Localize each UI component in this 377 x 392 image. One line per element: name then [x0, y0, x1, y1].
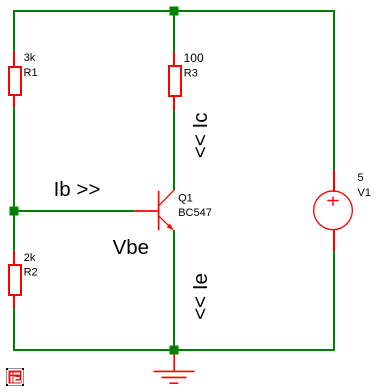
wire middle vertical top: [173, 10, 175, 52]
svg-text:BC547: BC547: [178, 207, 212, 219]
wire collector: [173, 110, 175, 190]
svg-text:<< Ic: << Ic: [189, 113, 212, 159]
resistor R1: [9, 51, 21, 107]
node junction bottom: [170, 346, 179, 355]
wire left vertical middle: [13, 107, 15, 251]
svg-text:Vbe: Vbe: [113, 236, 149, 259]
svg-text:R1: R1: [24, 67, 38, 79]
svg-text:5: 5: [358, 172, 364, 184]
wire right vertical upper: [333, 10, 335, 170]
svg-text:<< Ie: << Ie: [189, 273, 212, 320]
svg-text:2k: 2k: [24, 252, 36, 264]
wire bottom horizontal: [13, 349, 335, 351]
node junction top: [170, 7, 179, 16]
svg-text:3k: 3k: [24, 52, 36, 64]
resistor R3: [169, 52, 181, 110]
svg-text:V1: V1: [358, 187, 371, 199]
wire emitter: [173, 230, 175, 351]
svg-text:Ib >>: Ib >>: [54, 178, 101, 201]
svg-text:100: 100: [184, 51, 204, 65]
svg-text:R2: R2: [24, 267, 38, 279]
svg-text:Q1: Q1: [178, 192, 193, 204]
transistor Q1: [134, 190, 174, 231]
wire base: [14, 210, 134, 212]
embedded object icon iE: [6, 368, 24, 386]
resistor R2: [9, 251, 21, 308]
wire left vertical upper: [13, 10, 15, 51]
wire top horizontal: [13, 10, 335, 12]
wire left vertical lower: [13, 308, 15, 351]
svg-text:R3: R3: [184, 67, 198, 79]
wire right vertical lower: [333, 251, 335, 351]
node junction base: [10, 207, 19, 216]
ground: [154, 354, 195, 383]
voltage source V1: [314, 170, 353, 251]
